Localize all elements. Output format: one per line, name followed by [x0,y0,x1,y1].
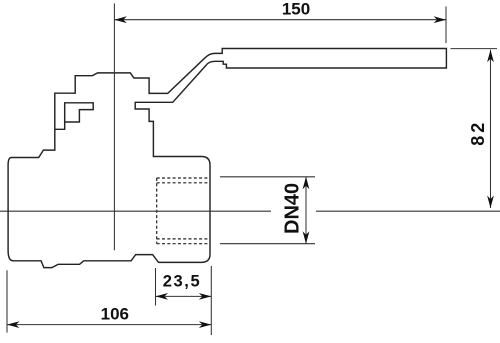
horizontal main centerline [0,210,500,212]
vertical stem centerline [113,3,115,250]
svg-text:82: 82 [468,120,488,146]
dimension DN40 bottom arrow [303,231,310,244]
svg-text:150: 150 [282,0,310,18]
dimension 150 right extension line [445,7,447,44]
dimension 82 bottom arrow [487,196,494,209]
dimension 150 line [114,19,446,21]
svg-text:106: 106 [101,305,129,324]
dimension DN40 bottom extension line [220,243,315,245]
dimension 82 top arrow [487,50,494,63]
dimension 106 line [7,324,211,326]
dimension 23,5 right arrow [199,293,212,300]
shared right extension line [210,266,212,335]
dimension 150 left arrow [114,16,127,23]
dimension 106 right arrow [199,321,212,328]
svg-text:DN40: DN40 [282,183,304,234]
internal thread dashed lines [157,178,210,244]
dimension DN40 line [305,177,307,244]
dimension 150 right arrow [434,16,447,23]
valve body outline with handle lever [8,49,446,268]
dimension 82 line [490,50,492,208]
dimension 106 left extension line [6,270,8,332]
dimension 106 left arrow [7,321,20,328]
dimension DN40 top arrow [303,177,310,190]
dimension 23,5 left extension line [155,268,157,306]
dimension 23,5 left arrow [156,293,169,300]
svg-text:23,5: 23,5 [163,273,202,291]
stem packing nut detail [55,103,93,130]
dimension 82 extension line [451,48,498,50]
dimension DN40 top extension line [220,176,315,178]
dimension 23,5 line [156,295,212,297]
